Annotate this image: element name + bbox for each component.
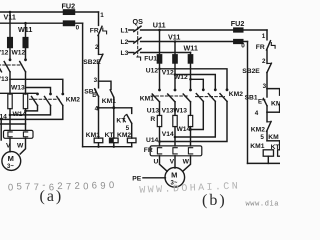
wire U column to FR (b) bbox=[159, 127, 161, 146]
wire bypass return to U14 (a) bbox=[0, 106, 63, 120]
pushbutton SB1 NO (b) bbox=[266, 89, 268, 97]
svg-text:0: 0 bbox=[76, 25, 80, 32]
switch QS blade L2 bbox=[134, 38, 141, 43]
dashed linkage KM1 (b) bbox=[151, 95, 188, 97]
svg-text:4: 4 bbox=[255, 110, 259, 117]
svg-text:FR: FR bbox=[90, 27, 99, 34]
svg-text:M: M bbox=[171, 171, 177, 180]
FR heater element W (a) bbox=[23, 132, 27, 137]
wire KM1 coil branch (a) bbox=[98, 108, 100, 138]
fuse FU1 W-phase (b) bbox=[188, 55, 192, 63]
coil KM1 (b) bbox=[263, 150, 273, 156]
wire bypass return U14 (b) bbox=[160, 101, 228, 141]
wire neutral return 0 (b) bbox=[247, 42, 249, 164]
dashed linkage QS bbox=[137, 27, 139, 56]
wire U column upper (b) bbox=[159, 30, 161, 55]
wire control hot drop (b) bbox=[266, 30, 268, 40]
contact KM2 middle (b) bbox=[214, 88, 217, 91]
pushbutton SB1 NO (a) bbox=[98, 81, 100, 88]
svg-text:U11: U11 bbox=[153, 21, 166, 30]
wire KM1 V to resistor (b) bbox=[174, 102, 176, 116]
svg-text:KM1: KM1 bbox=[86, 132, 100, 139]
svg-text:KM: KM bbox=[271, 100, 280, 107]
wire L2 stub bbox=[129, 41, 134, 43]
dashed linkage KM2 (a) bbox=[30, 98, 60, 100]
wire SB2 to node3 (b) bbox=[266, 73, 268, 89]
pushbutton SB2 NC (b) bbox=[267, 62, 271, 64]
junction dot U11 bbox=[158, 29, 161, 32]
coil KT (b) partial bbox=[278, 150, 286, 156]
fuse FU1 U-phase (b) bbox=[157, 55, 161, 63]
svg-text:KM2: KM2 bbox=[229, 91, 243, 98]
wire W column upper (a) bbox=[25, 23, 27, 37]
wire KM1 W to resistor (b) bbox=[190, 102, 192, 116]
wire node4 line (a) bbox=[99, 107, 132, 109]
fuse FU1 W-phase (a) bbox=[23, 38, 28, 48]
svg-text:KM: KM bbox=[268, 134, 279, 141]
contact KM2 left (a) bbox=[36, 93, 39, 96]
wire KT contact to KM2 coil (a) bbox=[131, 123, 133, 138]
contact FR NC (a) bbox=[98, 26, 102, 35]
coil KM2 (a) bbox=[127, 138, 136, 143]
svg-text:SB1: SB1 bbox=[245, 94, 258, 101]
wire bottom rail (a) bbox=[83, 146, 132, 148]
svg-text:V14: V14 bbox=[162, 131, 174, 138]
contact KM2 right (b) bbox=[226, 88, 229, 91]
switch QS blade L3 bbox=[134, 49, 141, 54]
wire W column lower (a) bbox=[25, 109, 27, 131]
svg-text:W12: W12 bbox=[12, 50, 26, 57]
wire branch node3 (b) bbox=[267, 89, 280, 96]
coil KT (a) bbox=[110, 138, 119, 143]
wire PE bbox=[143, 177, 165, 179]
wire bypass return V14 (b) bbox=[175, 101, 215, 137]
wire node5 line (b) bbox=[267, 140, 280, 142]
wire node4 line (b) bbox=[267, 111, 280, 113]
svg-text:V13: V13 bbox=[162, 107, 174, 114]
wire bypass feed W13 (a) bbox=[26, 88, 51, 94]
resistor R V (b) bbox=[173, 115, 177, 126]
junction dot V14 (a) bbox=[9, 114, 12, 117]
wire motor lead V (b) bbox=[174, 156, 176, 168]
wire V column upper (b) bbox=[174, 42, 176, 55]
wire V column lower (a) bbox=[9, 109, 11, 131]
wire bypass feed U12 (b) bbox=[160, 69, 228, 89]
svg-text:4: 4 bbox=[95, 106, 99, 113]
svg-text:W14: W14 bbox=[13, 111, 27, 118]
svg-text:5: 5 bbox=[260, 134, 264, 141]
wire bypass return W14 (b) bbox=[191, 101, 204, 129]
FR heater element U (b) bbox=[157, 148, 161, 154]
wire V column upper (a) bbox=[9, 12, 11, 38]
svg-text:V: V bbox=[170, 159, 175, 166]
svg-text:L1: L1 bbox=[121, 27, 129, 34]
svg-text:FU2: FU2 bbox=[231, 19, 245, 28]
wire rail V11 (a) bbox=[0, 11, 99, 13]
svg-text:W: W bbox=[183, 159, 190, 166]
svg-text:KM1: KM1 bbox=[140, 95, 154, 102]
wire motor lead W (b) bbox=[183, 156, 191, 172]
FR heater element W (b) bbox=[188, 148, 192, 154]
wire stray to W column (a) bbox=[0, 123, 26, 125]
wire SB2 to node3 (a) bbox=[98, 64, 100, 82]
wire W column to FR (b) bbox=[190, 127, 192, 146]
wire V column to FR (b) bbox=[174, 127, 176, 146]
svg-text:(a): (a) bbox=[40, 188, 64, 205]
contact KM1 V-phase (a) bbox=[9, 58, 12, 61]
svg-text:V11: V11 bbox=[168, 32, 180, 41]
fuse FU2 (b) upper bbox=[234, 28, 243, 32]
contact KM1 W (b) bbox=[189, 89, 192, 92]
wire L2 line to control bbox=[141, 41, 248, 43]
svg-text:W: W bbox=[17, 143, 24, 150]
wire bottom rail (b) bbox=[248, 162, 281, 164]
svg-text:V12: V12 bbox=[0, 50, 9, 57]
thermal overload FR box (b) bbox=[150, 146, 202, 156]
contact KM1 U (b) bbox=[158, 89, 161, 92]
wire W column to KM1 (b) bbox=[190, 63, 192, 90]
svg-text:W12: W12 bbox=[174, 74, 188, 81]
dashed linkage KM1 (a) bbox=[0, 64, 22, 66]
resistor R U (b) bbox=[157, 115, 161, 126]
svg-text:L3: L3 bbox=[121, 50, 129, 57]
fuse FU2 (a) lower bbox=[64, 21, 75, 25]
wire L1 stub bbox=[129, 29, 134, 31]
svg-text:FR: FR bbox=[256, 44, 265, 51]
wire V column mid (a) bbox=[9, 72, 11, 94]
wire FR to SB2 (a) bbox=[98, 36, 100, 55]
svg-text:W13: W13 bbox=[11, 85, 25, 92]
resistor R V-phase (a) bbox=[8, 94, 12, 109]
svg-text:FU2: FU2 bbox=[62, 2, 76, 11]
svg-text:KM2: KM2 bbox=[251, 126, 265, 133]
contact KT delayed NO (a) bbox=[131, 108, 133, 114]
QS handle hook bbox=[137, 57, 141, 60]
svg-text:E: E bbox=[258, 100, 262, 106]
svg-text:U: U bbox=[154, 159, 159, 166]
svg-text:SB2E: SB2E bbox=[83, 59, 101, 66]
svg-text:www.dia: www.dia bbox=[246, 201, 280, 209]
svg-text:W11: W11 bbox=[18, 25, 32, 34]
junction dot V11 bbox=[174, 40, 177, 43]
fuse FU1 V-phase (b) bbox=[173, 55, 177, 63]
wire KM2 to node5 (b) bbox=[266, 131, 268, 140]
contact KM2 NC (b) bbox=[266, 112, 268, 122]
wire control hot drop (a) bbox=[98, 12, 100, 25]
wire KM1 U to resistor (b) bbox=[159, 102, 161, 116]
wire V column to contact (a) bbox=[9, 48, 11, 60]
FR heater element V (b) bbox=[173, 148, 177, 154]
svg-text:3: 3 bbox=[94, 77, 98, 84]
contact KM1 W-phase (a) bbox=[24, 58, 27, 61]
node W11 junction dot bbox=[24, 22, 27, 25]
wire SB1 to node4 (a) bbox=[98, 96, 100, 107]
wire coil bottoms to rail (a) bbox=[98, 143, 100, 147]
svg-text:KT: KT bbox=[105, 132, 115, 139]
wire W column mid (a) bbox=[25, 72, 27, 94]
fuse FU2 (a) upper bbox=[64, 10, 75, 14]
wire bypass feed W12 (b) bbox=[191, 79, 204, 89]
wire W column upper (b) bbox=[190, 53, 192, 55]
svg-text:W11: W11 bbox=[184, 43, 198, 52]
wire KT branch (b) partial bbox=[279, 141, 281, 150]
pushbutton SB2 NC (a) bbox=[99, 53, 103, 55]
wire V column to KM1 (b) bbox=[174, 63, 176, 90]
wire L1 line to control bbox=[141, 29, 267, 31]
wire FR to SB2 (b) bbox=[266, 50, 268, 63]
motor M 3~ (a) bbox=[2, 152, 21, 171]
svg-text:W14: W14 bbox=[177, 126, 191, 133]
wire bypass return to V14 (a) bbox=[10, 106, 51, 115]
svg-text:KM2: KM2 bbox=[66, 97, 80, 104]
wire L3 stub bbox=[129, 52, 134, 54]
svg-text:V11: V11 bbox=[4, 13, 16, 22]
wire neutral return 0 (a) bbox=[82, 23, 84, 147]
svg-text:L2: L2 bbox=[121, 39, 129, 46]
junction dot W14 (a) bbox=[24, 110, 27, 113]
svg-text:(b): (b) bbox=[202, 192, 227, 209]
wire bypass feed U (a) bbox=[0, 92, 38, 94]
svg-text:2: 2 bbox=[95, 44, 99, 51]
switch QS blade L1 bbox=[134, 26, 141, 31]
svg-text:KM2: KM2 bbox=[117, 132, 131, 139]
wire motor lead U (b) bbox=[160, 156, 168, 172]
wire W column to contact (a) bbox=[25, 48, 27, 60]
svg-text:QS: QS bbox=[133, 17, 144, 26]
wire bypass feed V12 (b) bbox=[175, 75, 215, 90]
contact KM1 V (b) bbox=[174, 89, 177, 92]
svg-text:3~: 3~ bbox=[7, 164, 14, 170]
svg-text:SB2E: SB2E bbox=[242, 68, 260, 75]
svg-text:KT: KT bbox=[271, 144, 280, 151]
svg-text:KM1: KM1 bbox=[250, 143, 264, 150]
svg-text:1: 1 bbox=[262, 33, 266, 40]
FR heater element V (a) bbox=[8, 132, 12, 137]
svg-text:W13: W13 bbox=[173, 107, 187, 114]
wire coil to bottom rail (b) bbox=[267, 156, 269, 163]
fuse FU2 (b) lower bbox=[234, 40, 243, 44]
svg-text:FU1: FU1 bbox=[144, 56, 157, 63]
resistor R W (b) bbox=[188, 115, 192, 126]
svg-text:KM1: KM1 bbox=[102, 98, 116, 105]
wire KT coil branch (a) bbox=[113, 108, 115, 138]
motor M 3~ (b) bbox=[165, 168, 185, 188]
svg-text:PE: PE bbox=[132, 175, 141, 182]
thermal overload FR box (a) bbox=[4, 130, 34, 138]
wire motor lead W (a) bbox=[20, 138, 25, 154]
svg-text:1: 1 bbox=[100, 12, 104, 19]
svg-text:KT: KT bbox=[116, 118, 126, 125]
svg-text:M: M bbox=[8, 154, 14, 163]
contact KM1 aux (b) partial bbox=[279, 105, 281, 113]
svg-text:E: E bbox=[92, 93, 96, 99]
wire U column to KM1 (b) bbox=[159, 63, 161, 90]
wire motor lead U partial (a) bbox=[0, 119, 2, 140]
svg-text:3: 3 bbox=[263, 83, 267, 90]
contact KM2 right (a) bbox=[61, 93, 64, 96]
contact KM2 middle (a) bbox=[49, 93, 52, 96]
wire bypass feed V13 (a) bbox=[10, 79, 63, 93]
contact KM2 left (b) bbox=[202, 88, 205, 91]
contact KM1 U-phase partial (a) bbox=[0, 62, 2, 72]
dashed linkage KM2 (b) bbox=[196, 96, 225, 98]
svg-text:2: 2 bbox=[262, 58, 266, 65]
svg-text:U13: U13 bbox=[147, 107, 160, 114]
wire rail W11 (a) bbox=[0, 22, 83, 24]
svg-text:V12: V12 bbox=[162, 70, 174, 77]
contact KM1 aux (a) bbox=[110, 90, 114, 98]
svg-text:FR: FR bbox=[144, 147, 153, 154]
wire SB1 to node4 (b) bbox=[266, 106, 268, 112]
resistor R W-phase (a) bbox=[23, 94, 27, 109]
svg-text:R: R bbox=[150, 116, 155, 123]
wire L3 line bbox=[141, 52, 191, 54]
wire motor lead V (a) bbox=[9, 138, 11, 152]
svg-text:0: 0 bbox=[241, 42, 245, 49]
wire branch node3 (a) bbox=[99, 81, 112, 89]
contact FR NC (b) bbox=[267, 41, 271, 50]
fuse FU1 V-phase (a) bbox=[8, 38, 13, 48]
coil KM1 (a) bbox=[94, 138, 103, 143]
node V11 junction dot bbox=[9, 11, 12, 14]
svg-text:U14: U14 bbox=[146, 137, 159, 144]
svg-text:V14: V14 bbox=[0, 113, 7, 120]
svg-text:V: V bbox=[6, 143, 11, 150]
svg-text:U12: U12 bbox=[146, 68, 159, 75]
wire bypass return to W14 (a) bbox=[26, 106, 38, 111]
svg-text:V13: V13 bbox=[0, 76, 9, 83]
